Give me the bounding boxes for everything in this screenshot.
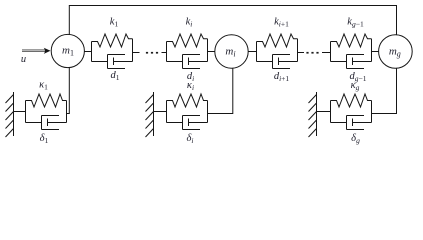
wire: stub left of ki assembly <box>162 52 167 54</box>
spring kg-1 + damper dg-1 assembly <box>331 34 372 69</box>
wire: stub left of kg-1 assembly <box>322 52 331 54</box>
svg-text:ki: ki <box>186 16 193 28</box>
wire: stub right of ki+1 assembly <box>298 52 305 54</box>
svg-text:ki+1: ki+1 <box>274 16 289 28</box>
wire: mi right lead <box>248 51 256 53</box>
svg-text:δi: δi <box>187 133 194 145</box>
wire: ground-g wall lead <box>317 111 331 113</box>
wire: mi bottom riser <box>208 68 233 113</box>
ground spring kappa_i + damper delta_i assembly <box>167 94 208 130</box>
svg-text:d1: d1 <box>111 70 120 82</box>
svg-text:k1: k1 <box>110 16 119 28</box>
svg-text:di+1: di+1 <box>274 71 290 83</box>
ground wall g <box>309 92 317 137</box>
wire: m1 right lead <box>84 51 91 53</box>
wire: ground-i wall lead <box>154 111 167 113</box>
svg-text:δ1: δ1 <box>40 133 49 145</box>
mass mi <box>215 35 248 68</box>
wire: ki assembly to mi <box>208 51 215 53</box>
svg-text:u: u <box>21 54 26 65</box>
ground spring kappa_g + damper delta_g assembly <box>331 94 372 130</box>
mass mg <box>379 35 413 69</box>
svg-text:κ1: κ1 <box>39 80 48 92</box>
wire: m1 bottom riser <box>67 68 70 114</box>
wire: kg-1 assembly to mg <box>372 51 379 53</box>
wire: ground1 wall lead <box>14 111 26 113</box>
svg-text:kg−1: kg−1 <box>347 17 364 29</box>
svg-text:δg: δg <box>351 133 360 145</box>
spring ki + damper di assembly <box>167 34 208 69</box>
spring k1 + damper d1 assembly <box>92 34 133 69</box>
wire: top connector m1 to mg <box>69 6 396 35</box>
mass m1 <box>51 34 84 67</box>
input arrow u <box>22 48 51 54</box>
ground spring kappa1 + damper delta1 assembly <box>26 94 67 130</box>
spring ki+1 + damper di+1 assembly <box>257 34 298 69</box>
dots between ki+1 and kg-1 <box>306 52 318 54</box>
ground wall 1 <box>6 92 14 137</box>
dots between k1 and ki <box>146 52 158 54</box>
ground wall i <box>146 92 154 137</box>
wire: mg bottom riser <box>372 68 397 113</box>
wire: stub right of k1 assembly <box>133 52 140 54</box>
